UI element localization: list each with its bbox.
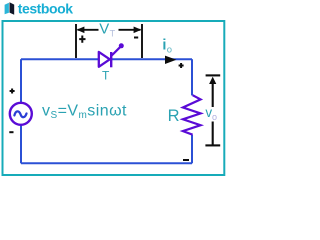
svg-text:T: T bbox=[102, 69, 110, 83]
svg-text:R: R bbox=[168, 107, 180, 125]
svg-text:o: o bbox=[212, 112, 217, 122]
svg-text:T: T bbox=[110, 29, 116, 39]
svg-text:o: o bbox=[167, 45, 172, 56]
svg-text:testbook: testbook bbox=[18, 0, 73, 16]
svg-text:V: V bbox=[99, 21, 109, 38]
